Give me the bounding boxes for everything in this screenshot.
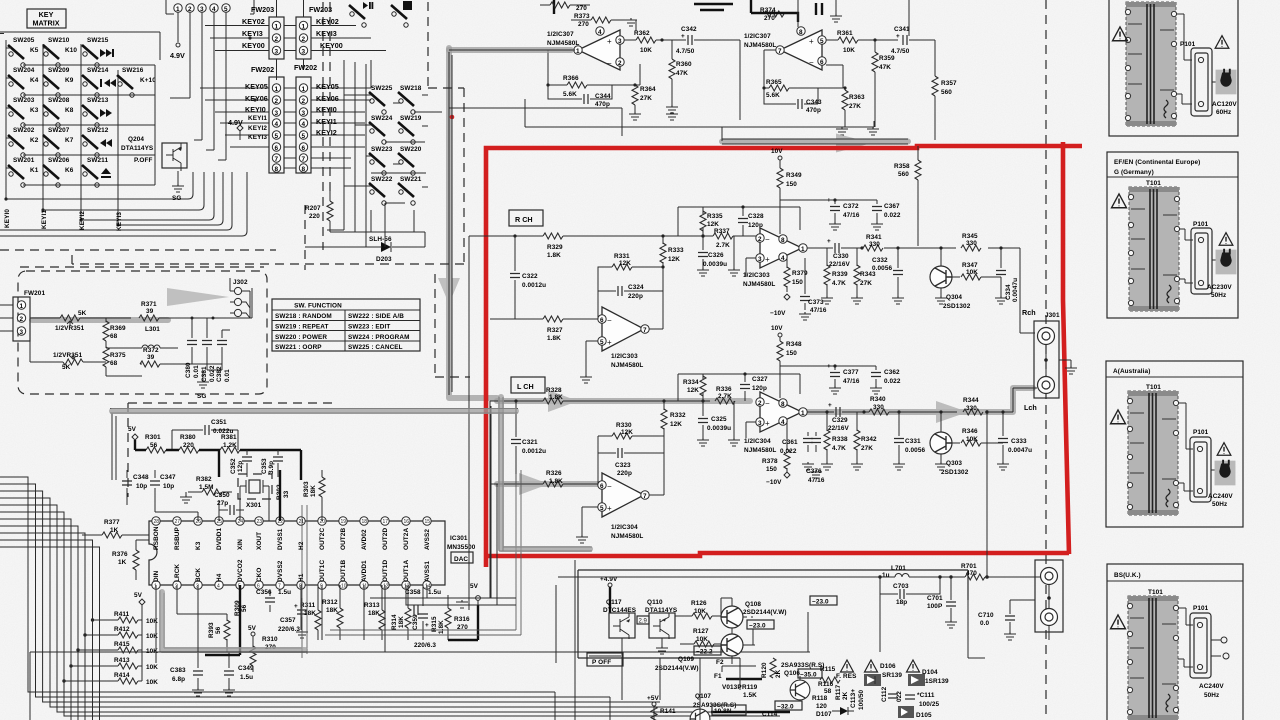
wire c341 top feed [798,0,909,36]
resistor R329 1.8K [543,233,563,259]
svg-text:5V: 5V [470,583,479,590]
svg-text:R342: R342 [861,436,877,443]
pin 20 OUT2C [318,517,326,550]
svg-text:21: 21 [299,519,305,525]
resistor R414 10K [62,672,158,686]
svg-text:220p: 220p [628,293,643,300]
svg-text:C361: C361 [782,439,798,446]
svg-text:2SD2144(V.W): 2SD2144(V.W) [743,609,787,616]
svg-text:7: 7 [275,156,279,163]
resistor R357 560 [932,76,957,140]
svg-text:R127: R127 [693,628,709,635]
node KEYI3 [210,29,371,40]
pin 1 DIN [152,570,160,589]
svg-text:2: 2 [302,98,306,105]
node 5V mid [248,625,257,648]
label -32.0 [775,701,802,711]
warning triangle 2 [1217,443,1231,456]
svg-text:3: 3 [758,420,762,427]
op-amp U IC304b [744,392,807,454]
resistor R312 18K [322,585,343,640]
svg-text:OUT1C: OUT1C [319,560,326,582]
svg-text:F. RES: F. RES [836,673,857,680]
svg-text:K6: K6 [65,167,74,174]
node 4.9V mid [228,118,243,140]
svg-text:J302: J302 [233,279,248,286]
svg-text:AVDD1: AVDD1 [361,560,368,582]
resistor R379 150 [784,257,808,300]
svg-text:R415: R415 [114,641,130,648]
op-amp U IC303a [598,307,649,369]
svg-text:R373: R373 [574,13,590,20]
ground opamp la [576,535,588,543]
svg-text:50Hz: 50Hz [1204,692,1219,699]
svg-text:D106: D106 [880,663,896,670]
svg-text:10p: 10p [136,483,147,490]
svg-text:C328: C328 [748,213,764,220]
transistor Q117 DTC144ES [603,599,637,700]
svg-text:330: 330 [873,404,884,411]
svg-text:*C111: *C111 [917,692,935,699]
svg-text:SW218 : RANDOM: SW218 : RANDOM [275,313,332,320]
wire stage2 feedback [746,207,800,276]
capacitor C334 0.0047u [995,246,1019,304]
wire top fragments [554,0,762,14]
grey highlight Lch in upper [497,398,750,404]
capacitor C356 1.5u [256,589,291,612]
svg-text:22/16V: 22/16V [828,425,849,432]
node 5V right [470,583,480,605]
svg-text:10: 10 [341,584,347,590]
wire slh feed [327,230,382,247]
svg-text:KEY05: KEY05 [316,82,339,91]
switch SW223 [369,146,393,175]
jack Rch [1038,328,1055,345]
diode D105 [898,706,932,719]
svg-text:18K: 18K [310,485,317,497]
svg-text:SW220 : POWER: SW220 : POWER [275,334,327,341]
inductor L301 [136,326,178,348]
warning triangle [1112,194,1127,208]
wire down to J701 [986,412,988,577]
svg-text:C322: C322 [522,273,538,280]
svg-text:FW202: FW202 [294,63,317,72]
svg-text:DVDD1: DVDD1 [216,527,223,550]
pin 11 AVDD1 [360,560,368,590]
ground c325 [697,438,709,446]
svg-text:Rch: Rch [1022,308,1036,317]
svg-text:OUT1D: OUT1D [382,560,389,582]
svg-text:50Hz: 50Hz [1211,292,1226,299]
plug AC120V [1216,69,1237,95]
svg-text:K5: K5 [30,47,39,54]
svg-text:R120: R120 [761,662,768,678]
pin 5 DVCO2 [236,559,244,589]
resistor R364 27K [629,83,656,120]
svg-text:12K: 12K [668,256,680,263]
resistor R334 12K [678,374,800,403]
panel box 2 Europe [1107,152,1238,318]
resistor R382 1.5M [188,476,232,495]
svg-text:C343: C343 [806,99,822,106]
warning triangle 2 [1219,233,1233,246]
resistor R374 270 [760,7,798,27]
svg-text:100P: 100P [927,603,943,610]
svg-text:022: 022 [896,691,903,702]
svg-text:H1: H1 [298,573,305,582]
wire board stipple border [160,470,521,658]
svg-text:−: − [607,316,612,325]
svg-text:C373: C373 [808,299,824,306]
svg-text:27K: 27K [860,280,872,287]
svg-text:1/2IC303: 1/2IC303 [743,272,770,279]
resistor R328 1.8K [543,387,563,404]
svg-text:C323: C323 [615,462,631,469]
capacitor C383 6.8p [170,652,204,696]
capacitor C372 47/16 [827,197,860,230]
warning triangle 2 [1215,36,1229,49]
svg-text:330: 330 [966,405,977,412]
svg-text:EF/EN (Continental Europe): EF/EN (Continental Europe) [1114,159,1200,166]
node 5V ladder [134,592,145,681]
svg-text:10K: 10K [146,679,158,686]
resistor R336 2.7K [715,386,735,404]
capacitor C377 47/16 [827,363,860,394]
node 10V l [771,325,783,341]
svg-text:DTA114YS: DTA114YS [121,145,154,152]
svg-text:R347: R347 [962,262,978,269]
svg-text:R330: R330 [616,422,632,429]
svg-text:2: 2 [275,98,279,105]
svg-text:C112: C112 [881,686,888,702]
svg-text:G (Germany): G (Germany) [1114,169,1154,176]
warning triangle p2 [865,660,878,672]
pin 9 OUT1C [318,560,326,590]
svg-text:−32.0: −32.0 [777,704,794,711]
wire top fragment bars [694,3,822,15]
svg-text:0.0056: 0.0056 [905,447,925,454]
node 5V filter rail [128,426,138,450]
svg-text:DVCO2: DVCO2 [237,559,244,582]
svg-text:H2: H2 [298,541,305,550]
wire pin5 ground [586,341,598,375]
svg-text:2.9: 2.9 [639,619,648,625]
svg-text:K8: K8 [65,107,74,114]
svg-text:2.7K: 2.7K [716,242,730,249]
resistor R302 33 [276,470,290,521]
resistor R330 12K feedback [598,422,664,484]
capacitor C344 470p [548,85,612,108]
svg-text:+: + [765,419,770,428]
svg-text:47/16: 47/16 [808,477,825,484]
svg-text:KEYI2: KEYI2 [79,211,86,230]
svg-text:SW223: SW223 [371,146,393,153]
resistor R333 12K [660,234,684,291]
svg-text:R331: R331 [614,253,630,260]
svg-text:1: 1 [176,6,180,13]
svg-text:12K: 12K [670,421,682,428]
resistor R309 56 [205,585,248,655]
svg-text:R344: R344 [963,397,979,404]
node +4.9V [600,576,618,613]
resistor R347 10K [961,262,1001,280]
svg-text:2SA933S(R.S): 2SA933S(R.S) [781,662,824,669]
svg-text:C114: C114 [762,711,778,718]
svg-text:DVSS2: DVSS2 [277,560,284,582]
svg-text:KEY02: KEY02 [242,17,265,26]
capacitor C362 0.022 [870,366,901,394]
svg-text:R310: R310 [262,636,278,643]
svg-text:K+10: K+10 [140,77,156,84]
switch SW220 [398,146,422,175]
svg-text:1: 1 [275,86,279,93]
svg-text:56: 56 [215,626,222,634]
svg-text:+: + [425,622,429,629]
svg-text:SW223 : EDIT: SW223 : EDIT [348,324,390,331]
resistor R120 [761,658,782,678]
svg-text:FW202: FW202 [251,65,274,74]
svg-text:−22.2: −22.2 [696,649,713,656]
wire rch feed vertical [469,236,490,610]
pin 28 RSBON [152,517,160,550]
svg-text:2: 2 [275,36,279,43]
connector J701 [1035,560,1063,640]
svg-text:+: + [765,255,770,264]
svg-text:Q117: Q117 [606,599,622,606]
svg-text:R361: R361 [837,30,853,37]
resistor R314 18K [391,585,411,640]
svg-text:6: 6 [275,145,279,152]
svg-text:R366: R366 [563,75,579,82]
node KEYI0 [215,105,365,114]
svg-text:0.0: 0.0 [980,620,990,627]
svg-text:R364: R364 [640,86,656,93]
resistor R376 1K [112,540,149,580]
inductor L701 1u [878,565,940,579]
svg-text:2: 2 [188,6,192,13]
potentiometer 1/2VR351 upper [30,310,106,332]
capacitor C358 1.5u [370,589,441,615]
svg-text:−23.0: −23.0 [812,599,829,606]
svg-text:47/16: 47/16 [810,307,827,314]
box P OFF [587,653,623,666]
svg-text:Q110: Q110 [647,599,663,606]
svg-text:47/16: 47/16 [843,212,860,219]
svg-text:AC230V: AC230V [1207,284,1232,291]
resistor R344 330 [963,397,983,415]
wire opamp a pin3 [624,39,636,41]
resistor R378 150 [762,421,790,478]
svg-text:7: 7 [302,156,306,163]
svg-text:2.7K: 2.7K [718,393,732,400]
pin 22 DVSS1 [276,517,284,550]
svg-text:3: 3 [20,329,24,336]
svg-text:KEYI2: KEYI2 [248,125,267,132]
svg-text:0.0047u: 0.0047u [1012,278,1019,302]
wire switch col verticals [344,60,428,247]
svg-text:0.022: 0.022 [209,365,216,382]
svg-text:4: 4 [212,6,216,13]
pin 4 H4 [215,573,223,589]
svg-text:−: − [765,235,770,244]
wire xfmr to plug au [1178,403,1217,491]
svg-text:7: 7 [643,493,647,500]
connector P101 [1180,41,1212,116]
svg-text:KEYI3: KEYI3 [242,29,263,38]
svg-text:MATRIX: MATRIX [32,19,59,28]
svg-text:5V: 5V [248,625,257,632]
pin 14 AVSS1 [423,561,431,590]
svg-text:R377: R377 [104,519,120,526]
resistor R316 270 [448,600,478,640]
svg-text:−: − [607,482,612,491]
svg-text:4.7/50: 4.7/50 [891,48,910,55]
svg-text:K1: K1 [30,167,39,174]
svg-text:10K: 10K [966,436,978,443]
svg-text:C701: C701 [927,595,943,602]
svg-text:R360: R360 [676,61,692,68]
capacitor C359 [412,585,429,640]
svg-text:R380: R380 [180,434,196,441]
node KEY05 [200,82,371,91]
svg-text:−35.0: −35.0 [800,672,817,679]
pin 15 AVSS2 [423,517,431,550]
resistor R362 10K [634,30,686,54]
svg-text:SW218: SW218 [400,85,422,92]
svg-text:23: 23 [257,519,263,525]
svg-text:4: 4 [781,419,785,426]
wire lch feeds [491,401,497,598]
svg-text:C352: C352 [230,458,237,474]
svg-text:K2: K2 [30,137,39,144]
svg-text:C703: C703 [893,583,909,590]
svg-text:470p: 470p [595,101,610,108]
warning triangle [1111,410,1126,424]
capacitor C327 120p [740,372,768,401]
capacitor C350 27p [214,492,244,521]
resistor R413 10K [69,657,158,671]
IC IC301 MN35500 body [149,521,476,585]
capacitor C361 0.022 [780,432,822,478]
switch top partial play/pause [349,2,373,27]
svg-text:SW224 : PROGRAM: SW224 : PROGRAM [348,334,410,341]
svg-text:SW219 : REPEAT: SW219 : REPEAT [275,324,328,331]
switch SW214 prev [82,67,116,97]
svg-text:330: 330 [966,240,977,247]
svg-text:KEYI3: KEYI3 [116,212,123,231]
resistor R369 68 [103,318,126,348]
svg-text:68: 68 [110,333,118,340]
pin 8 H1 [297,573,305,589]
svg-text:1/2VR351: 1/2VR351 [55,325,85,332]
grey arrow volume to jack [167,288,229,306]
svg-text:6.8p: 6.8p [172,676,185,683]
svg-text:17: 17 [383,519,389,525]
svg-text:470p: 470p [806,107,821,114]
svg-text:F2: F2 [716,659,724,666]
svg-text:3: 3 [275,110,279,117]
svg-text:NJM4580L: NJM4580L [744,42,776,49]
capacitor C322 0.0012u [510,234,546,319]
wire xfmr to terminals uk [1178,608,1221,667]
node KEYI3b [230,134,365,147]
svg-text:DAC: DAC [454,556,468,563]
jack J701 top [1041,568,1058,585]
resistor R349 150 [777,168,827,234]
switch SW206 K6 [43,157,74,187]
svg-text:SW214: SW214 [87,67,109,74]
capacitor C373 47/16 [799,258,827,320]
svg-text:P101: P101 [1180,41,1196,48]
svg-text:4: 4 [781,255,785,262]
svg-text:C359: C359 [412,614,419,630]
resistor R393 56 [177,585,230,652]
svg-text:1SR139: 1SR139 [925,678,949,685]
svg-text:R329: R329 [547,244,563,251]
svg-text:R338: R338 [832,436,848,443]
svg-text:C349: C349 [238,665,254,672]
transistor Q110 DTA114YS [645,599,678,654]
svg-text:58: 58 [824,688,832,695]
capacitor C112 [881,686,898,702]
wire lch out [807,388,1037,412]
svg-text:SW211: SW211 [87,157,108,164]
svg-text:OUT1B: OUT1B [340,560,347,582]
svg-text:1/2VR351: 1/2VR351 [53,352,83,359]
svg-text:BS(U.K.): BS(U.K.) [1114,572,1141,579]
ground top left [625,18,637,26]
svg-text:R333: R333 [668,247,684,254]
svg-text:3: 3 [302,110,306,117]
svg-text:R332: R332 [670,412,686,419]
svg-text:7: 7 [643,327,647,334]
resistor R339 4.7K [821,248,848,304]
capacitor C324 220p [598,267,663,319]
resistor R343 27K [851,248,876,304]
svg-text:Q303: Q303 [946,460,962,467]
capacitor C329 22/16V [828,402,849,432]
svg-text:R382: R382 [196,476,212,483]
svg-text:R393: R393 [208,622,215,638]
svg-text:LRCK: LRCK [174,564,181,582]
node 4.9V [170,13,185,61]
svg-text:2: 2 [758,236,762,243]
label 2.9 [637,616,649,625]
svg-text:120: 120 [816,703,827,710]
connector J301 [1034,312,1077,398]
svg-text:K10: K10 [65,47,77,54]
svg-text:Q204: Q204 [128,136,144,143]
svg-text:X301: X301 [246,502,262,509]
switch SW212 rew [82,127,112,157]
svg-text:R119: R119 [742,684,758,691]
svg-text:+: + [294,603,298,610]
op-amp U IC307b [744,27,826,70]
capacitor C353 3.9p [219,450,283,477]
svg-text:R335: R335 [707,213,723,220]
connector P101 [1190,605,1211,678]
resistor R127 10K [680,628,721,647]
svg-text:K3: K3 [30,107,39,114]
svg-text:R359: R359 [879,55,895,62]
svg-text:220p: 220p [617,470,632,477]
svg-text:P101: P101 [1193,221,1209,228]
svg-text:4.7/50: 4.7/50 [676,48,695,55]
svg-text:47/16: 47/16 [843,378,860,385]
svg-text:SW221 : OORP: SW221 : OORP [275,344,322,351]
svg-text:R326: R326 [546,470,562,477]
svg-text:D203: D203 [376,256,392,263]
